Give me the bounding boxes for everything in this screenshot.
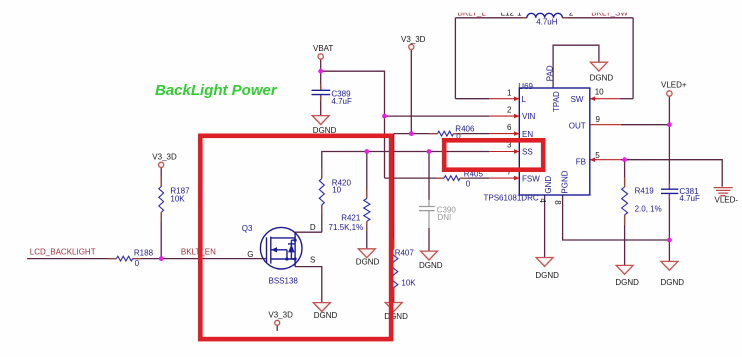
svg-text:9: 9 — [596, 115, 601, 124]
svg-text:DGND: DGND — [314, 311, 338, 320]
svg-text:FB: FB — [576, 157, 586, 166]
svg-text:SS: SS — [522, 148, 533, 157]
svg-text:10K: 10K — [170, 195, 185, 204]
svg-text:DGND: DGND — [419, 261, 443, 270]
svg-text:1: 1 — [517, 9, 522, 18]
svg-text:10: 10 — [595, 87, 604, 96]
svg-text:GND: GND — [544, 176, 553, 194]
svg-text:U69: U69 — [518, 82, 533, 91]
svg-text:VLED+: VLED+ — [661, 80, 687, 89]
svg-text:TPAD: TPAD — [552, 91, 561, 112]
svg-text:BackLight Power: BackLight Power — [155, 82, 278, 99]
svg-text:2.0, 1%: 2.0, 1% — [635, 205, 662, 214]
svg-text:G: G — [247, 250, 253, 259]
svg-text:0: 0 — [466, 180, 471, 189]
svg-text:VBAT: VBAT — [313, 44, 333, 53]
svg-text:4.7uH: 4.7uH — [536, 18, 558, 27]
svg-text:PAD: PAD — [545, 65, 554, 81]
svg-text:L: L — [522, 95, 527, 104]
svg-text:V3_3D: V3_3D — [401, 35, 426, 44]
svg-text:2: 2 — [569, 9, 574, 18]
svg-text:OUT: OUT — [569, 121, 586, 130]
svg-text:V3_3D: V3_3D — [152, 153, 177, 162]
svg-text:S: S — [310, 256, 315, 265]
svg-text:BKLT_L: BKLT_L — [458, 9, 487, 18]
svg-text:BSS138: BSS138 — [269, 277, 299, 286]
svg-text:DGND: DGND — [384, 312, 408, 321]
svg-text:LCD_BACKLIGHT: LCD_BACKLIGHT — [30, 248, 96, 257]
svg-text:DGND: DGND — [590, 73, 614, 82]
svg-text:10: 10 — [332, 186, 341, 195]
svg-text:71.5K,1%: 71.5K,1% — [329, 223, 364, 232]
svg-text:D: D — [310, 223, 316, 232]
svg-text:SW: SW — [571, 95, 584, 104]
svg-text:4: 4 — [538, 198, 547, 203]
svg-text:TPS61081DRC: TPS61081DRC — [484, 194, 539, 203]
svg-text:EN: EN — [522, 130, 533, 139]
svg-text:R188: R188 — [134, 248, 154, 257]
svg-text:DGND: DGND — [661, 278, 685, 287]
svg-text:L12: L12 — [501, 9, 515, 18]
svg-text:VLED-: VLED- — [715, 196, 739, 205]
svg-text:R421: R421 — [341, 214, 361, 223]
svg-text:V3_3D: V3_3D — [268, 310, 293, 319]
svg-text:5: 5 — [595, 151, 600, 160]
svg-text:DGND: DGND — [615, 278, 639, 287]
svg-text:VIN: VIN — [522, 112, 536, 121]
svg-text:Q3: Q3 — [242, 224, 253, 233]
svg-text:DGND: DGND — [535, 271, 559, 280]
svg-text:8: 8 — [553, 200, 562, 205]
svg-text:0: 0 — [135, 259, 140, 268]
svg-text:R407: R407 — [395, 249, 415, 258]
svg-text:DGND: DGND — [356, 257, 380, 266]
svg-text:4.7uF: 4.7uF — [679, 194, 700, 203]
svg-text:2: 2 — [507, 105, 512, 114]
svg-text:BKLT_SW: BKLT_SW — [591, 9, 628, 18]
svg-text:6: 6 — [507, 123, 512, 132]
svg-text:R419: R419 — [635, 187, 655, 196]
svg-text:4.7uF: 4.7uF — [331, 97, 352, 106]
svg-text:DNI: DNI — [438, 213, 452, 222]
svg-text:FSW: FSW — [522, 175, 540, 184]
svg-text:PGND: PGND — [560, 170, 569, 193]
svg-text:10K: 10K — [401, 278, 416, 287]
svg-text:1: 1 — [507, 88, 512, 97]
